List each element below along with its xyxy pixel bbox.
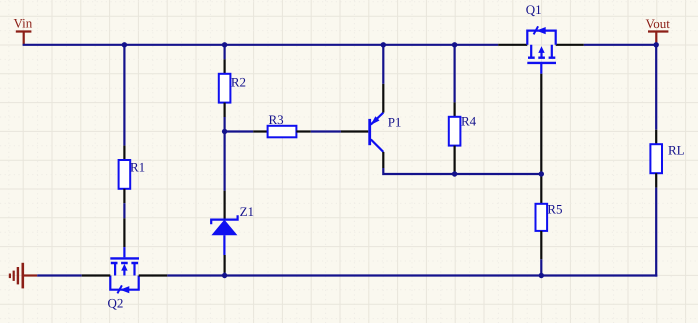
wire pin R1 top (123, 146, 125, 160)
svg-text:R4: R4 (461, 114, 477, 129)
wire pin Q1 left (498, 44, 527, 46)
wire R2 to Z1 (224, 117, 226, 191)
wire R1 branch from top rail (123, 45, 125, 146)
wire Z1 to bottom rail (224, 273, 226, 276)
transistor Q1 gate stub (540, 63, 542, 74)
resistor R5 (536, 204, 548, 231)
wire R1 to Q2 gate (123, 203, 125, 218)
wire bottom rail (167, 274, 657, 276)
node top rail R4 (452, 42, 457, 47)
wire pin R4 top (454, 102, 456, 116)
wire pin Q2 gate (123, 218, 125, 247)
svg-text:P1: P1 (388, 114, 402, 129)
wire pin R2 top (224, 59, 226, 73)
wire pin P1 emitter (382, 84, 384, 113)
node top rail R1 (122, 42, 127, 47)
resistor R4 (449, 117, 461, 146)
node top rail R2 (222, 42, 227, 47)
wire R4 branch from top rail (454, 45, 456, 103)
wire pin Q2 left (82, 274, 111, 276)
transistor Q1 (527, 26, 556, 63)
resistor RL (650, 144, 662, 173)
wire P1 emitter to top rail (382, 45, 384, 84)
svg-text:Z1: Z1 (240, 204, 254, 219)
transistor Q2 (110, 258, 139, 293)
node R5 bottom rail (539, 273, 544, 278)
svg-text:R2: R2 (231, 74, 246, 89)
svg-text:Vout: Vout (646, 16, 671, 31)
svg-text:Q2: Q2 (108, 296, 124, 311)
wire RL to bottom rail (655, 188, 657, 277)
wire pin Z1 top (224, 191, 226, 220)
wire pin Q1 gate (540, 74, 542, 173)
wire top rail Q1 to Vout (584, 44, 656, 46)
node R2 R3 Z1 (222, 129, 227, 134)
wire R3 from R2 node (225, 130, 254, 132)
wire R5 to bottom rail (540, 259, 542, 275)
wire Vout branch down (655, 45, 657, 130)
zener Z1 (211, 215, 237, 255)
resistor R2 (219, 74, 231, 103)
node R5 gate line (539, 171, 544, 176)
wire P1 collector to R5 node (383, 168, 541, 174)
wire pin R3 left (253, 130, 267, 132)
wire pin R3 right (296, 130, 310, 132)
wire pin P1 base (341, 130, 368, 132)
wire pin Q1 right (556, 44, 584, 46)
wire pin P1 collector (382, 152, 384, 168)
svg-text:R1: R1 (130, 160, 145, 175)
wire pin Q2 right (139, 274, 168, 276)
wire pin R5 bottom (540, 231, 542, 259)
wire R2 branch from top rail (224, 45, 226, 60)
port Vin symbol (16, 32, 32, 45)
wire pin R5 top (540, 175, 542, 204)
svg-text:RL: RL (668, 143, 685, 158)
port Vout symbol (648, 32, 668, 45)
wire top rail Vin to Q1 (23, 44, 499, 46)
wire pin Z1 bottom (224, 255, 226, 273)
transistor P1 (370, 113, 384, 152)
wire ground to Q2 (37, 274, 81, 276)
ground symbol (10, 263, 37, 289)
node R4 emitter line (452, 171, 457, 176)
node Vout (654, 42, 659, 47)
svg-text:Q1: Q1 (526, 2, 542, 17)
transistor Q2 gate stub (123, 247, 125, 257)
svg-text:R3: R3 (269, 112, 284, 127)
wire pin R2 bottom (224, 103, 226, 117)
node Z1 bottom rail (222, 273, 227, 278)
svg-text:Vin: Vin (14, 16, 33, 31)
resistor R3 (268, 126, 297, 138)
node top rail P1 (381, 42, 386, 47)
wire pin R1 bottom (123, 189, 125, 203)
wire pin R4 bottom (454, 146, 456, 174)
svg-text:R5: R5 (547, 201, 562, 216)
wire R3 to P1 base (311, 130, 341, 132)
wire pin RL bottom (655, 173, 657, 187)
resistor R1 (119, 160, 131, 189)
wire pin RL top (655, 130, 657, 144)
